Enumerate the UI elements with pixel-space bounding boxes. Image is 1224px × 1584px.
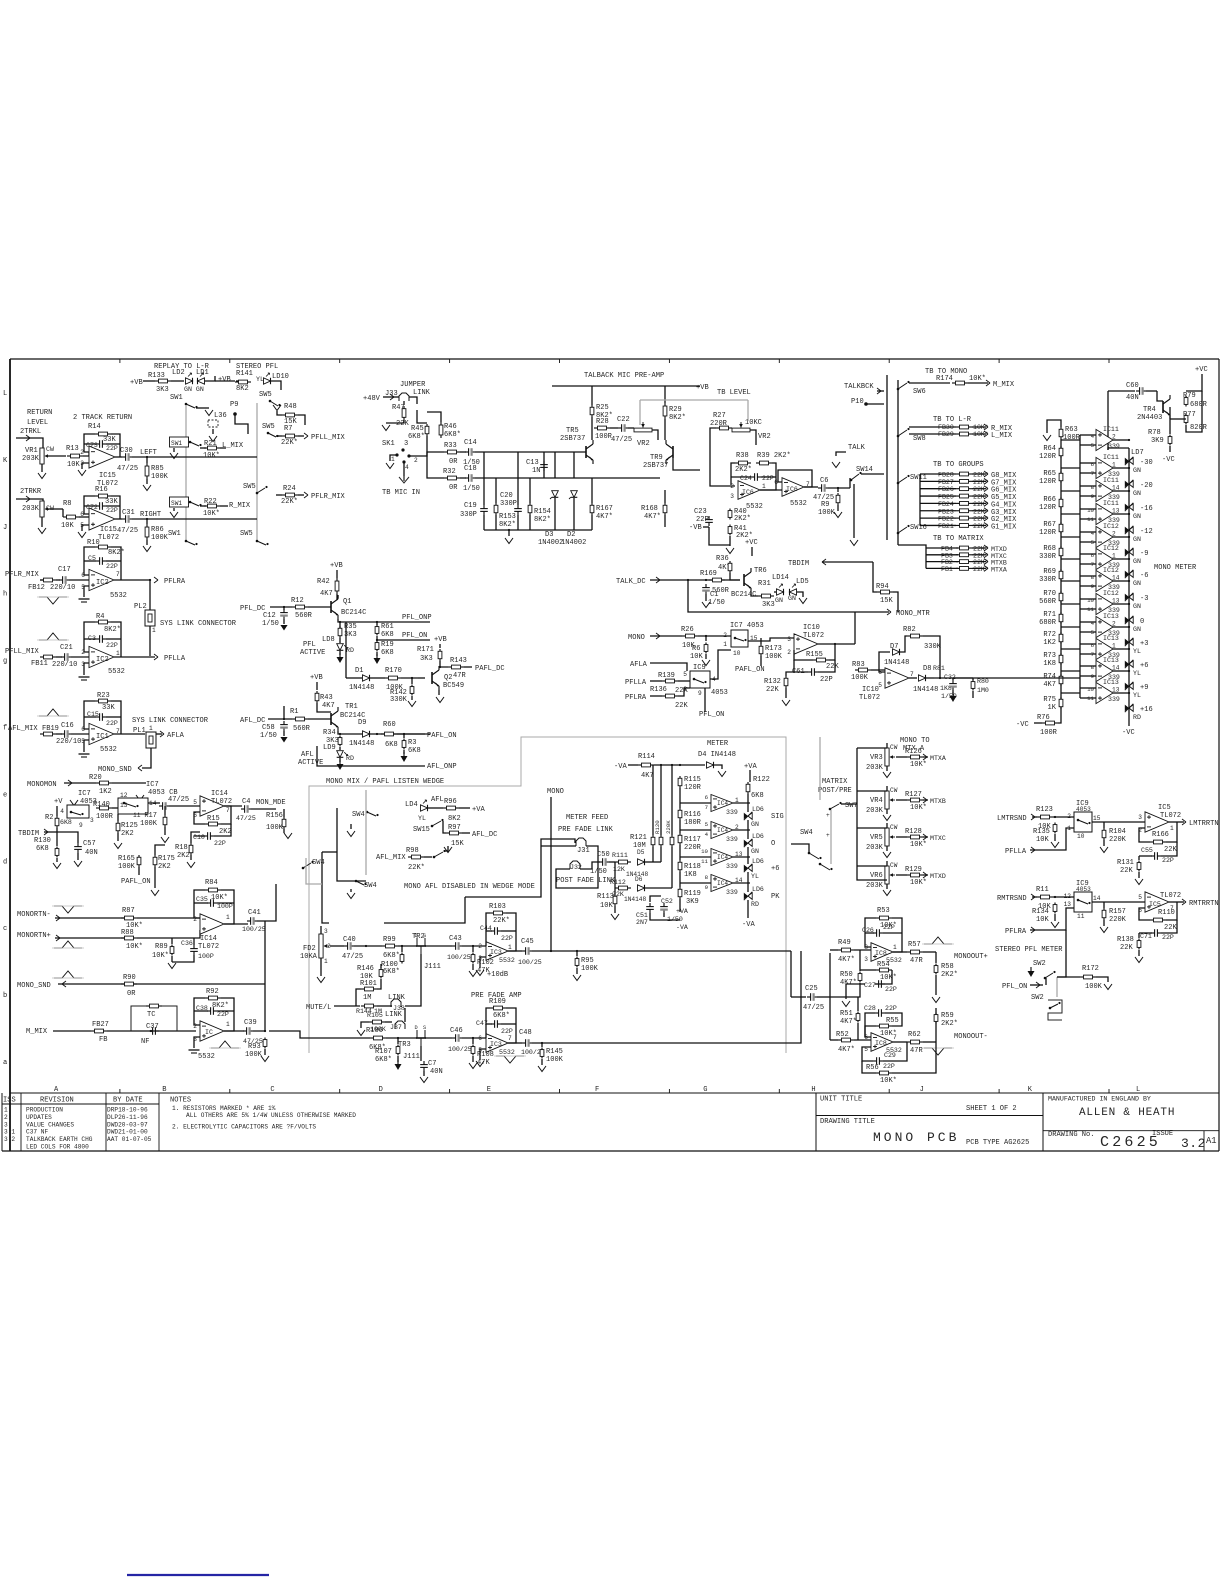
wire — [871, 669, 885, 671]
label R136 — [650, 686, 688, 710]
wire — [968, 382, 988, 384]
label R61 — [381, 623, 394, 639]
svg-text:SW1: SW1 — [168, 530, 181, 538]
label R111 — [612, 852, 628, 873]
wire — [873, 562, 877, 592]
resistor R155 — [813, 658, 829, 662]
svg-text:Q1: Q1 — [343, 598, 351, 606]
wire — [650, 913, 680, 920]
ground — [114, 843, 122, 849]
wire — [409, 452, 444, 456]
wire — [376, 622, 378, 625]
label R132 — [764, 678, 781, 694]
op-amp comparator IC13 pin 2 — [1096, 616, 1113, 637]
switch contact IC9 — [693, 678, 707, 683]
svg-text:C40: C40 — [343, 936, 356, 944]
wire — [1058, 715, 1061, 723]
svg-text:-VA: -VA — [676, 924, 688, 931]
svg-text:5: 5 — [81, 738, 85, 745]
net PFL_ON — [1002, 983, 1027, 991]
svg-text:5: 5 — [81, 584, 85, 591]
label R47 — [392, 404, 409, 428]
wire — [71, 733, 89, 735]
resistor R46 — [439, 422, 443, 438]
wire — [1138, 856, 1140, 860]
switch SW1 — [170, 497, 189, 507]
svg-text:6K8: 6K8 — [381, 631, 394, 639]
wire — [132, 456, 257, 458]
label FB11 — [31, 660, 77, 669]
switch SW2a — [1033, 960, 1046, 968]
label R102 — [477, 959, 494, 975]
svg-text:100K: 100K — [266, 824, 284, 832]
wire — [397, 1056, 399, 1062]
svg-text:TL072: TL072 — [198, 943, 219, 951]
svg-text:IC8: IC8 — [875, 950, 887, 957]
label C17 — [58, 566, 71, 574]
wire — [460, 451, 466, 453]
op-amp IC10b — [885, 668, 909, 688]
svg-text:R76: R76 — [1037, 714, 1050, 722]
label R57 — [908, 941, 923, 965]
net AFL_DC — [240, 717, 265, 725]
wire — [896, 836, 907, 838]
wire — [462, 1037, 486, 1039]
switch SW4 contact — [302, 861, 314, 869]
label R79 — [1183, 392, 1208, 409]
label R31 — [758, 580, 775, 609]
LED meter -16 — [1125, 503, 1133, 511]
wire — [830, 949, 838, 951]
svg-text:IC4: IC4 — [717, 800, 728, 807]
wire — [747, 872, 749, 892]
svg-text:+VC: +VC — [745, 539, 758, 547]
wire — [893, 1041, 907, 1043]
resistor R125 — [116, 821, 120, 833]
wire — [411, 678, 413, 684]
label D5 — [626, 849, 648, 878]
label 22K* — [973, 546, 989, 553]
ground — [79, 599, 90, 602]
wire — [1103, 822, 1105, 828]
capacitor C10 — [204, 832, 214, 840]
LED meter +6 — [1125, 660, 1133, 668]
svg-text:2: 2 — [787, 649, 791, 656]
svg-text:339: 339 — [726, 836, 738, 843]
label R175 — [158, 855, 175, 871]
wire — [443, 821, 446, 833]
junction — [146, 456, 148, 458]
svg-text:FB27: FB27 — [92, 1021, 109, 1029]
label IC5b — [1138, 892, 1181, 914]
wire — [628, 427, 634, 429]
label R74 — [1043, 673, 1056, 689]
net G8_MIX — [991, 472, 1017, 480]
label TR6 — [731, 567, 767, 599]
svg-text:5532: 5532 — [108, 668, 125, 676]
junction — [283, 718, 285, 720]
arrow — [26, 435, 30, 441]
label C21 — [60, 644, 73, 652]
label IC9 — [693, 664, 728, 697]
svg-text:8K2*: 8K2* — [108, 549, 125, 557]
wire — [751, 592, 758, 596]
svg-text:10K: 10K — [600, 902, 613, 910]
resistor R92 — [205, 996, 221, 1000]
ground — [469, 1063, 477, 1069]
svg-text:LEVEL: LEVEL — [27, 419, 48, 427]
svg-text:+9: +9 — [1140, 684, 1148, 692]
svg-text:1.: 1. — [4, 1107, 11, 1114]
svg-text:22K*: 22K* — [408, 864, 425, 872]
resistor R11 — [1037, 895, 1053, 899]
resistor R19 — [375, 641, 379, 652]
svg-text:-VC: -VC — [1162, 456, 1175, 464]
svg-text:5532: 5532 — [790, 500, 807, 508]
capacitor C30 — [122, 453, 132, 461]
svg-text:9: 9 — [698, 690, 702, 697]
svg-text:R133: R133 — [148, 372, 165, 380]
svg-text:GN: GN — [751, 848, 759, 855]
wire bottom rail — [484, 529, 592, 531]
svg-text:P9: P9 — [230, 401, 238, 409]
svg-text:22P: 22P — [106, 720, 118, 727]
svg-text:BC549: BC549 — [443, 682, 464, 690]
svg-text:SK1: SK1 — [382, 440, 395, 448]
svg-text:4: 4 — [705, 831, 709, 838]
resistor R13 — [67, 454, 83, 458]
wire — [1080, 598, 1096, 600]
svg-text:R146: R146 — [357, 965, 374, 973]
svg-text:330K: 330K — [924, 643, 942, 651]
label LINK J38 — [388, 994, 406, 1012]
op-amp comparator IC13 pin 1 — [1096, 638, 1113, 659]
op-amp comparator IC11 pin 2 — [1096, 429, 1113, 450]
svg-text:d: d — [3, 858, 7, 866]
svg-text:C46: C46 — [450, 1027, 463, 1035]
svg-text:R97: R97 — [448, 824, 461, 832]
svg-text:C38: C38 — [196, 1005, 208, 1012]
waveform mark — [37, 709, 69, 716]
svg-text:IC7: IC7 — [78, 790, 91, 798]
svg-text:7: 7 — [508, 1035, 512, 1042]
capacitor C71 — [1151, 929, 1161, 937]
svg-text:SYS LINK CONNECTOR: SYS LINK CONNECTOR — [160, 620, 237, 628]
switch SW16 contact — [897, 525, 910, 534]
svg-text:4K7*: 4K7* — [644, 513, 661, 521]
wire feedback — [486, 913, 490, 946]
svg-text:e: e — [3, 791, 7, 799]
svg-text:R66: R66 — [1043, 496, 1056, 504]
resistor R57 — [907, 950, 923, 954]
svg-text:1K8: 1K8 — [684, 871, 697, 879]
svg-text:1M: 1M — [363, 994, 371, 1002]
jumper J33 — [399, 393, 409, 401]
svg-text:10: 10 — [733, 650, 741, 657]
wire — [830, 983, 860, 997]
svg-text:-6: -6 — [1140, 572, 1148, 580]
wire — [200, 447, 206, 449]
wire — [397, 1038, 399, 1044]
resistor R144 — [361, 1004, 377, 1008]
label R62 — [908, 1031, 923, 1055]
wire — [1138, 933, 1140, 938]
label R45 — [408, 425, 425, 441]
label C61 — [792, 668, 833, 684]
svg-text:3: 3 — [4, 1121, 8, 1128]
svg-text:AFL: AFL — [301, 751, 314, 759]
wire — [909, 677, 917, 679]
wire — [1080, 653, 1096, 655]
svg-text:GN: GN — [788, 595, 796, 602]
wire — [857, 997, 859, 1011]
svg-text:3: 3 — [90, 817, 94, 824]
ground — [702, 602, 710, 608]
svg-text:47/25: 47/25 — [236, 815, 256, 822]
net G6_MIX — [991, 487, 1017, 495]
svg-text:TB TO L-R: TB TO L-R — [933, 416, 972, 424]
svg-text:22P: 22P — [106, 445, 118, 452]
label R168 — [641, 505, 661, 521]
svg-text:R24: R24 — [283, 485, 296, 493]
svg-text:33K: 33K — [103, 436, 116, 444]
wire — [972, 502, 986, 504]
net -VC — [1016, 721, 1029, 729]
svg-text:22P: 22P — [762, 475, 774, 482]
pin numbers — [1064, 893, 1101, 920]
wire — [146, 540, 148, 545]
ferrite bead FB3 — [941, 552, 953, 559]
svg-text:203K: 203K — [866, 844, 884, 852]
svg-text:10K*: 10K* — [910, 761, 927, 769]
label C25 — [803, 985, 824, 1012]
wire — [462, 945, 486, 947]
net L_MIX — [222, 442, 244, 450]
net 2TRKR — [20, 488, 42, 496]
switch SW1 contact — [185, 540, 198, 545]
net PFL_ON — [402, 632, 427, 640]
svg-text:IC14: IC14 — [200, 935, 217, 943]
svg-text:7: 7 — [116, 571, 120, 578]
wire — [972, 488, 986, 490]
svg-text:100R: 100R — [1040, 729, 1058, 737]
net PAFL_ON — [735, 666, 765, 674]
notes — [170, 1097, 356, 1131]
resistor R105 — [369, 1020, 385, 1024]
resistor R58 — [934, 964, 938, 975]
svg-text:220/10: 220/10 — [50, 584, 75, 592]
switch SW4c — [800, 829, 813, 837]
switch SW1 — [170, 437, 189, 447]
wire — [704, 688, 706, 712]
svg-text:b: b — [3, 992, 7, 1000]
wire — [747, 900, 749, 918]
label C51 — [636, 912, 648, 926]
label R10 — [87, 539, 125, 557]
svg-text:R73: R73 — [1043, 652, 1056, 660]
LED LD9 — [337, 751, 348, 758]
svg-text:C6: C6 — [820, 477, 828, 485]
wire — [952, 678, 954, 680]
wire — [404, 1008, 406, 1022]
net PFLLA — [1005, 848, 1027, 856]
svg-text:GN: GN — [751, 821, 759, 828]
wire — [896, 756, 907, 758]
switch SW5 — [259, 391, 272, 399]
label R105 — [367, 1012, 386, 1033]
resistor R73 — [1059, 653, 1063, 665]
section title STEREO PFL METER — [995, 946, 1063, 954]
label R78 — [1148, 429, 1164, 445]
LED meter -12 — [1125, 526, 1133, 534]
resistor R145 — [540, 1048, 544, 1059]
arrow — [1036, 982, 1040, 988]
capacitor C55 — [1151, 852, 1161, 860]
FET TR3 — [415, 1025, 427, 1046]
label R68 — [1039, 545, 1057, 561]
label R48 — [284, 403, 297, 426]
resistor R75 — [1059, 697, 1063, 709]
svg-text:22K: 22K — [1120, 867, 1133, 875]
wire — [747, 847, 749, 864]
wire — [664, 490, 666, 503]
op-amp IC6b — [782, 478, 804, 497]
potentiometer VR2b — [732, 422, 750, 432]
svg-text:IC9: IC9 — [693, 664, 706, 672]
wire — [573, 498, 575, 530]
svg-text:YL: YL — [418, 815, 426, 822]
wire — [972, 473, 986, 475]
svg-text:22P: 22P — [1162, 857, 1174, 864]
svg-text:+VB: +VB — [434, 636, 447, 644]
wire — [354, 945, 382, 947]
wire ladder tap — [1061, 490, 1080, 492]
svg-text:SW5: SW5 — [240, 530, 253, 538]
svg-text:LMTRSND: LMTRSND — [997, 815, 1027, 823]
label R103 — [489, 903, 510, 925]
svg-text:R85: R85 — [151, 465, 164, 473]
resistor R100 — [400, 953, 404, 964]
wire — [276, 435, 282, 437]
svg-text:J31: J31 — [577, 847, 590, 855]
wire — [705, 594, 707, 601]
diode D6 — [638, 885, 645, 891]
wire — [486, 1023, 492, 1025]
svg-text:g: g — [3, 658, 7, 666]
wire — [698, 635, 731, 637]
svg-text:R121: R121 — [630, 834, 647, 842]
wire — [1080, 585, 1096, 587]
wire — [920, 473, 956, 475]
label R25 — [596, 404, 613, 420]
wire TB bus — [886, 375, 888, 540]
capacitor C1 — [702, 584, 710, 594]
wire — [645, 861, 661, 863]
ferrite bead FB28 — [938, 472, 954, 479]
svg-text:SW5: SW5 — [243, 483, 256, 491]
section title MONO METER — [1154, 564, 1197, 572]
capacitor C39 — [243, 1027, 253, 1035]
resistor R59 — [934, 1013, 938, 1024]
svg-text:680R: 680R — [1190, 401, 1208, 409]
wire — [212, 429, 214, 434]
wire — [972, 517, 986, 519]
svg-text:33K: 33K — [102, 704, 115, 712]
wire — [320, 926, 322, 934]
wire — [164, 806, 166, 815]
label C19 — [460, 502, 477, 519]
label R112 — [610, 879, 626, 898]
svg-text:YL: YL — [1133, 670, 1141, 677]
wire — [747, 820, 749, 839]
arrow — [656, 577, 660, 583]
analog switch IC9a — [1074, 812, 1092, 832]
svg-text:6K8: 6K8 — [385, 741, 398, 749]
svg-text:L36: L36 — [214, 412, 227, 420]
wire — [268, 718, 292, 720]
svg-text:R83: R83 — [852, 661, 865, 669]
wire SW4 gray bus — [365, 790, 367, 875]
capacitor C4 — [241, 805, 251, 813]
svg-text:PFL_ON: PFL_ON — [1002, 983, 1027, 991]
label R154 — [534, 508, 551, 524]
svg-text:REVISION: REVISION — [40, 1097, 74, 1105]
svg-text:IC11: IC11 — [1103, 426, 1119, 433]
arrow — [390, 394, 394, 400]
resistor R121 — [651, 835, 655, 847]
resistor R128 — [907, 835, 923, 839]
drawing border frame — [2, 359, 1219, 1151]
label IC7 4053 CB — [146, 781, 178, 797]
junction — [439, 666, 441, 668]
wire — [926, 561, 958, 563]
net MONO_MTR — [896, 610, 931, 618]
wire — [1161, 920, 1177, 933]
svg-text:6: 6 — [478, 1035, 482, 1042]
svg-text:SW6: SW6 — [913, 388, 926, 396]
svg-text:15K: 15K — [880, 597, 893, 605]
svg-text:LD6: LD6 — [752, 833, 764, 840]
label IC9a — [1076, 800, 1091, 813]
wire — [554, 498, 556, 530]
svg-text:203K: 203K — [866, 764, 884, 772]
capacitor C57 — [74, 843, 82, 853]
wire — [1139, 932, 1152, 934]
label IC3b — [478, 1035, 515, 1056]
wire — [117, 833, 119, 841]
wire — [298, 415, 305, 425]
svg-text:8: 8 — [1091, 574, 1095, 581]
capacitor C25 — [807, 993, 817, 1001]
wire — [146, 519, 148, 524]
svg-text:E: E — [487, 1086, 491, 1094]
svg-text:+VB: +VB — [696, 384, 709, 392]
wire — [339, 638, 341, 643]
wire pre fade bus — [532, 951, 801, 1043]
label TR4 — [1137, 406, 1162, 422]
section title STEREO PFL — [236, 363, 278, 371]
wire — [679, 820, 681, 833]
svg-text:C51: C51 — [636, 912, 648, 919]
svg-text:330P: 330P — [500, 500, 517, 508]
svg-text:PFLR_MIX: PFLR_MIX — [311, 493, 346, 501]
svg-text:11: 11 — [1077, 913, 1085, 920]
svg-text:22P: 22P — [106, 563, 118, 570]
ferrite bead FB27 — [938, 479, 954, 486]
wire — [909, 382, 950, 384]
junction — [397, 1037, 399, 1039]
svg-text:10K: 10K — [67, 461, 80, 469]
